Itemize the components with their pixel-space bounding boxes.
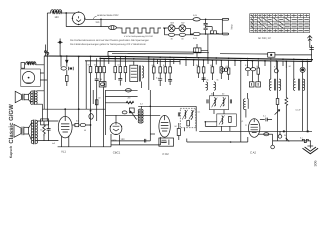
resistor R11 <box>103 67 106 73</box>
tube V3 (triode circle) <box>110 115 122 135</box>
capacitor C22 <box>144 139 145 143</box>
svg-text:Classic G/GW: Classic G/GW <box>8 104 15 144</box>
svg-text:0,05: 0,05 <box>193 37 198 40</box>
terminal <box>278 135 282 139</box>
wire <box>279 131 281 134</box>
wire stub <box>150 133 155 135</box>
wire drops mid <box>109 56 126 66</box>
potentiometer box <box>129 108 136 120</box>
wire <box>272 134 274 145</box>
capacitor C17 (dot) <box>300 67 305 72</box>
wire <box>207 34 209 61</box>
svg-text:5k: 5k <box>217 79 219 82</box>
resistor R 180 (wirewound) <box>51 10 62 20</box>
capacitor C10 <box>118 79 122 86</box>
mains plug (Netz) <box>222 18 233 34</box>
wire <box>91 73 105 88</box>
wire <box>65 13 67 27</box>
capacitor C24 <box>230 99 231 103</box>
svg-text:Netz: Netz <box>231 24 234 30</box>
svg-text:2k: 2k <box>94 64 96 67</box>
svg-text:VL1: VL1 <box>61 150 66 154</box>
wire drops to tube <box>278 61 308 141</box>
wire <box>111 134 150 147</box>
wiper contact <box>286 138 290 142</box>
tick marks <box>309 48 313 50</box>
svg-text:180: 180 <box>54 16 59 19</box>
wire <box>190 33 222 35</box>
node junction <box>205 19 207 21</box>
node junction <box>164 28 166 30</box>
svg-text:4x2: 4x2 <box>52 142 55 145</box>
bus rail A <box>44 56 313 60</box>
node junction <box>78 108 80 110</box>
svg-text:6,3: 6,3 <box>241 120 244 123</box>
bus rail C <box>85 60 180 63</box>
IF can T4 <box>293 79 304 91</box>
phone jack arrow <box>66 60 68 63</box>
wire <box>66 26 108 28</box>
wire top rail <box>85 18 193 20</box>
node junction <box>230 141 232 143</box>
resistor R17 <box>164 67 167 73</box>
wire drops right <box>248 61 308 79</box>
resistor R9 <box>95 67 98 73</box>
resistor R25 <box>75 123 79 126</box>
wire <box>61 12 75 14</box>
shield box <box>21 69 41 87</box>
svg-text:30: 30 <box>170 38 173 41</box>
wire <box>105 102 133 104</box>
wire <box>214 92 225 114</box>
wire <box>200 18 222 20</box>
IF transformer IFT1 <box>130 61 144 88</box>
capacitor C12 <box>168 80 172 85</box>
capacitor C25 <box>260 114 272 121</box>
resistor R6 <box>40 124 45 136</box>
speaker LS1 cone <box>15 91 28 102</box>
svg-text:0,5: 0,5 <box>76 120 79 123</box>
resistor R4 (shunt) <box>179 33 185 40</box>
capacitor C8 (dot) <box>68 67 73 70</box>
wire lower mains rail <box>186 34 194 36</box>
wire <box>72 124 90 126</box>
wire <box>138 106 196 108</box>
wire <box>163 28 169 35</box>
wire <box>275 42 312 55</box>
resistor R20 <box>202 67 205 73</box>
wire <box>160 137 162 145</box>
top feeder rail <box>108 51 196 56</box>
wire <box>178 123 180 140</box>
wire drop <box>60 56 62 66</box>
capacitor C13 <box>202 78 206 79</box>
resistor R31 (meander small) <box>302 139 308 142</box>
lamp LA2 (scale lamp) <box>179 22 186 32</box>
cathode wire <box>58 146 111 148</box>
resistor R27 (zigzag) <box>126 101 134 104</box>
wire <box>116 27 120 29</box>
wire <box>186 28 191 35</box>
transformer T2 <box>31 120 37 145</box>
long output wire <box>199 130 312 132</box>
node junction <box>205 121 207 123</box>
coupling transformer T5 <box>138 109 143 124</box>
terminal <box>47 52 49 54</box>
resistor R22 <box>220 67 223 73</box>
wire vertical <box>42 104 44 121</box>
svg-text:0,1: 0,1 <box>118 64 121 67</box>
svg-text:0,1: 0,1 <box>300 137 303 140</box>
wire <box>105 89 137 91</box>
wire <box>66 62 68 75</box>
svg-text:50: 50 <box>256 65 258 68</box>
IF can T3 <box>269 79 280 91</box>
wire <box>46 13 48 56</box>
svg-text:2M: 2M <box>128 97 131 100</box>
svg-text:25: 25 <box>100 78 102 81</box>
resistor R14 <box>124 67 127 73</box>
node junction <box>205 33 207 35</box>
switch block S1 <box>194 44 208 57</box>
resistor R30 (zigzag) <box>285 98 288 106</box>
IF transformer box (dashed) <box>178 108 196 128</box>
capacitor C23 <box>207 99 208 103</box>
capacitor C3 <box>204 19 208 26</box>
tube V4 (IF pentode) <box>159 115 170 137</box>
svg-text:8: 8 <box>274 66 275 69</box>
wire <box>175 34 180 36</box>
resistor R10 <box>99 67 102 73</box>
wire right edge <box>311 45 313 62</box>
tube pins <box>62 137 69 147</box>
resistor R26 <box>95 100 98 105</box>
transformer T1 <box>31 90 38 104</box>
wire long vertical <box>46 56 48 121</box>
resistor R16 <box>159 67 162 73</box>
wire <box>206 27 213 31</box>
trimmer C16 <box>274 69 278 73</box>
resistor R3 (shunt) <box>169 33 175 40</box>
trimmer pair <box>221 68 228 72</box>
svg-text:CBC1: CBC1 <box>113 151 121 155</box>
resistor R5 (small meander) <box>210 31 218 34</box>
wire <box>309 141 311 148</box>
svg-text:190: 190 <box>121 138 126 141</box>
coil L1 <box>26 62 36 65</box>
wire <box>47 12 51 14</box>
junction box J1 <box>268 53 275 58</box>
svg-text:0,1uF: 0,1uF <box>296 109 302 112</box>
osc coil L2 <box>243 99 248 110</box>
wire <box>218 33 222 35</box>
voltage table <box>250 14 310 33</box>
capacitor C2 (line filter 0,05) <box>193 32 200 40</box>
svg-text:30: 30 <box>181 38 184 41</box>
wire <box>29 91 45 104</box>
capacitor C11 <box>158 79 162 86</box>
dial lamp L1 <box>109 26 117 30</box>
bus rail B <box>100 58 312 61</box>
capacitor C4 <box>204 27 208 34</box>
svg-text:C H2: C H2 <box>162 152 169 156</box>
wire <box>154 73 170 82</box>
tube V1 (rectifier envelope) <box>72 11 86 25</box>
svg-text:KW: KW <box>181 22 184 25</box>
node junction <box>64 108 66 110</box>
svg-text:50: 50 <box>289 65 291 68</box>
svg-text:2M: 2M <box>196 64 199 67</box>
IF transformer box B2 <box>217 114 237 126</box>
wire <box>187 137 248 142</box>
wire B+ drop <box>240 61 242 142</box>
wire <box>100 19 102 26</box>
svg-text:Die Elektrodenspannungen gelte: Die Elektrodenspannungen gelten fur Netz… <box>70 43 146 46</box>
resistor R18 <box>169 67 172 73</box>
wire <box>45 45 47 57</box>
capacitor C26 <box>264 133 269 136</box>
electrolytic block <box>159 138 174 146</box>
wire <box>115 73 125 82</box>
svg-text:1M: 1M <box>98 97 101 100</box>
table cell marks <box>250 14 309 32</box>
choke CH2 <box>214 82 216 90</box>
svg-text:Kapsch: Kapsch <box>9 146 13 158</box>
wire <box>105 96 137 98</box>
resistor R19 <box>197 67 200 73</box>
svg-text:50: 50 <box>175 125 178 128</box>
pot wiper arrow <box>275 110 280 115</box>
wire <box>36 56 45 109</box>
wire <box>175 27 179 29</box>
node junction <box>90 110 92 112</box>
node square <box>283 130 285 132</box>
terminal <box>45 51 47 53</box>
antenna symbol <box>307 36 312 43</box>
resistor R23 <box>227 68 230 74</box>
capacitor C1 (line filter 0,05) <box>193 14 200 21</box>
resistor R13 <box>119 67 122 73</box>
svg-text:0,1: 0,1 <box>198 110 201 113</box>
node junction <box>65 12 67 14</box>
wire <box>246 93 248 118</box>
svg-text:0,1: 0,1 <box>156 76 159 79</box>
svg-text:50: 50 <box>88 64 90 67</box>
resistor R12 <box>114 67 117 73</box>
node junction <box>90 124 92 126</box>
svg-text:190: 190 <box>95 21 100 24</box>
capacitor C14 <box>245 68 250 71</box>
wire drops right of switch <box>180 60 235 69</box>
resistor R29 <box>276 99 279 105</box>
capacitor C21 <box>122 111 127 114</box>
svg-text:wirkliche Werte 220V: wirkliche Werte 220V <box>97 14 119 17</box>
svg-text:50k: 50k <box>152 64 155 67</box>
svg-text:0,1: 0,1 <box>263 114 267 117</box>
terminal <box>271 145 275 149</box>
wire <box>65 109 79 123</box>
svg-text:50: 50 <box>210 64 212 67</box>
wire <box>29 121 59 141</box>
bus junction dots <box>60 55 308 62</box>
svg-text:0,05: 0,05 <box>193 14 198 17</box>
svg-text:4 W fur Netzspannung 110-240: 4 W fur Netzspannung 110-240 <box>124 35 154 38</box>
resistor R28 <box>175 125 181 135</box>
wire <box>199 73 229 82</box>
resistor R15 <box>153 67 156 73</box>
svg-text:50: 50 <box>84 129 86 132</box>
resistor R2 (mains dropper, meander) <box>120 28 161 33</box>
tube V5 <box>249 119 260 138</box>
svg-text:Die Drehkondensatoren sind auf: Die Drehkondensatoren sind auf das Chass… <box>70 39 150 42</box>
wire <box>248 71 258 82</box>
feeder to right box <box>196 52 268 54</box>
wire long verticals <box>91 86 106 147</box>
capacitor C7 <box>61 67 66 70</box>
switch contact box <box>249 82 260 87</box>
wire <box>185 106 197 131</box>
capacitor C5 <box>58 39 63 57</box>
choke CH1 <box>206 82 208 90</box>
node square <box>307 130 309 132</box>
resistor R21 <box>211 67 214 73</box>
svg-text:0,5: 0,5 <box>226 65 229 68</box>
wire drops mid2 <box>149 57 174 90</box>
value labels <box>52 64 303 145</box>
wire <box>40 73 47 80</box>
resistor R7 <box>66 75 69 86</box>
capacitor C9 <box>95 79 99 86</box>
svg-text:Sn 230 | 42: Sn 230 | 42 <box>258 37 271 40</box>
wire <box>111 90 161 145</box>
block Cu <box>99 82 106 88</box>
capacitor C18 <box>80 123 85 126</box>
IF transformer box B1 <box>209 96 228 110</box>
wire screen feeds <box>79 57 87 110</box>
svg-text:0,2: 0,2 <box>140 103 143 106</box>
block label box <box>41 119 49 125</box>
wire <box>43 121 45 141</box>
svg-text:25: 25 <box>284 134 286 137</box>
svg-text:5k: 5k <box>207 79 209 82</box>
small block <box>21 63 25 69</box>
anode feed wire <box>43 108 106 110</box>
resistor R24 <box>257 68 260 74</box>
svg-text:0,1: 0,1 <box>245 64 248 67</box>
wire drop group 1 <box>91 56 105 66</box>
lamp LA1 (scale lamp) <box>168 22 175 32</box>
wire <box>205 122 230 132</box>
svg-text:60: 60 <box>222 93 225 96</box>
svg-text:306: 306 <box>314 161 318 167</box>
svg-text:MW: MW <box>171 22 175 25</box>
svg-text:G: G <box>245 124 247 127</box>
rotary unit (circle with dot) <box>23 72 35 84</box>
wire volume line <box>273 140 311 142</box>
capacitor C20 <box>125 89 131 92</box>
capacitor C15 <box>251 68 256 71</box>
capacitor C19 <box>89 114 93 120</box>
speaker LS2 cone <box>14 124 29 137</box>
svg-text:C A2: C A2 <box>250 150 257 154</box>
resistor R8 <box>89 67 92 73</box>
node junction <box>100 19 102 21</box>
wire <box>105 114 160 116</box>
svg-text:0,1: 0,1 <box>163 64 166 67</box>
wire <box>258 133 272 135</box>
capacitor C6 <box>47 121 51 141</box>
chassis ground <box>303 146 319 154</box>
output tube V2 <box>58 116 72 138</box>
